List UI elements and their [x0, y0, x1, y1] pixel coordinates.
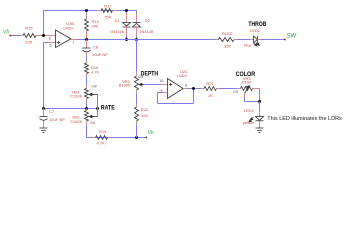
potentiometer VR3 — [241, 87, 253, 91]
svg-text:10K: 10K — [141, 113, 148, 118]
svg-text:C100K: C100K — [70, 119, 83, 124]
wire R20 bottom lead — [136, 121, 138, 125]
wiper VR1B — [90, 116, 98, 118]
wire output rail to C8 node — [77, 39, 87, 41]
svg-text:R21: R21 — [206, 81, 214, 86]
svg-text:Vb: Vb — [3, 30, 9, 36]
wire LED1 top lead — [259, 102, 261, 113]
ground (C7) — [40, 127, 48, 129]
node VR1 string / rail junction — [85, 107, 88, 110]
svg-text:R19: R19 — [99, 129, 107, 134]
wire output rail across diodes — [87, 39, 216, 41]
wire R19 lead left — [93, 137, 96, 139]
node RATE wiper bus junction — [96, 107, 99, 110]
svg-text:7: 7 — [72, 41, 74, 45]
svg-text:B100K: B100K — [119, 83, 131, 88]
svg-text:RLED: RLED — [222, 31, 233, 36]
wire R19 lead right — [108, 137, 111, 139]
resistor RLED — [219, 38, 235, 42]
svg-text:LED1: LED1 — [244, 108, 255, 113]
svg-text:24K: 24K — [92, 24, 99, 29]
wiper VR2 — [140, 84, 144, 86]
node Vb bottom endpoint — [145, 137, 147, 139]
potentiometer VR1A — [85, 89, 89, 99]
svg-text:4.7K: 4.7K — [91, 69, 100, 74]
svg-text:R20: R20 — [141, 107, 149, 112]
svg-text:10K: 10K — [25, 40, 32, 45]
wire U2B output pin 7 — [71, 39, 77, 41]
resistor R15 — [23, 34, 36, 38]
svg-text:LM324: LM324 — [177, 73, 187, 78]
resistor R16 — [85, 19, 89, 31]
wire VR1B bottom to bottom rail — [86, 121, 88, 125]
resistor R21 — [204, 87, 217, 91]
wire RLED to LED2 — [234, 39, 238, 41]
svg-text:4.7K: 4.7K — [97, 140, 106, 145]
node R16 top rail junction — [85, 9, 88, 12]
wire D1 bottom lead — [126, 27, 128, 36]
resistor R18 — [85, 63, 89, 74]
wire R18 to VR1A — [86, 74, 88, 78]
svg-text:RATE: RATE — [101, 105, 115, 112]
capacitor C7 — [40, 115, 48, 117]
svg-text:LM324: LM324 — [64, 25, 74, 30]
svg-text:THROB: THROB — [248, 21, 266, 28]
svg-text:6: 6 — [49, 37, 51, 41]
wire VR2 bottom to R20 — [136, 90, 138, 94]
LED LED2 — [254, 36, 258, 43]
resistor R20 — [135, 107, 139, 121]
wire VR1A bottom lead to RATE rail — [86, 99, 88, 103]
svg-text:C7: C7 — [49, 109, 55, 114]
plus sign U2B non-inverting input — [57, 42, 60, 44]
node R20 bottom junction — [135, 136, 138, 139]
svg-text:CW: CW — [92, 85, 97, 89]
wire R15 to U2B pin 6 — [36, 35, 56, 37]
wire bias column down from pin 5 to RATE rail — [43, 43, 45, 109]
wire R17 lead right — [113, 10, 117, 12]
wire D2 top lead — [136, 11, 138, 14]
svg-text:C100K: C100K — [70, 94, 83, 99]
wire R21 to VR3 — [217, 88, 221, 90]
wire D1 top lead — [126, 11, 128, 14]
wire top rail — [44, 10, 137, 12]
wire C7 bottom lead — [43, 121, 45, 128]
wire RATE rail — [44, 108, 98, 110]
node Vb endpoint — [9, 35, 11, 37]
wire D2 node down to VR2 — [136, 40, 138, 73]
wire R15 lead left — [21, 35, 24, 37]
svg-text:CW: CW — [90, 121, 95, 125]
svg-text:8: 8 — [185, 83, 187, 87]
wiper VR1A — [90, 94, 98, 96]
wire C8 top lead — [86, 40, 88, 48]
svg-text:SW: SW — [286, 34, 297, 40]
wire VR3 wiper return — [244, 94, 246, 97]
wire bottom rail — [87, 137, 146, 139]
node bias rail / C7 junction — [42, 107, 45, 110]
svg-text:D1: D1 — [115, 18, 121, 23]
plus sign U2C non-inverting input — [169, 84, 172, 86]
wire VR3 right end down — [253, 88, 260, 90]
LED LED1 — [256, 117, 264, 121]
svg-text:D2: D2 — [145, 18, 151, 23]
svg-text:Vb: Vb — [148, 130, 154, 136]
svg-text:1N4148: 1N4148 — [110, 29, 125, 34]
wire R16 bottom lead — [86, 31, 88, 40]
op-amp U2C — [168, 79, 184, 99]
svg-text:DEPTH: DEPTH — [141, 70, 158, 77]
LED2 light arrows — [254, 43, 256, 45]
svg-text:C10K: C10K — [242, 79, 252, 84]
wire VR1B top lead — [86, 109, 88, 111]
svg-text:This LED illuminates the LDRs: This LED illuminates the LDRs — [267, 116, 342, 122]
wire R16 top lead — [86, 11, 88, 14]
wire D2 bottom lead — [136, 27, 138, 36]
diode D1 — [123, 23, 131, 27]
node D1 output rail junction — [125, 38, 128, 41]
svg-text:15K: 15K — [224, 44, 231, 49]
wire VR2 wiper to U2C pin 10 — [144, 84, 161, 86]
node SW endpoint — [284, 39, 286, 41]
wire LED2 to SW — [258, 39, 262, 41]
wire C7 top lead — [43, 109, 45, 117]
ground (LED1) — [256, 127, 264, 129]
wire U2B pin 5 stub — [48, 42, 56, 44]
svg-text:10uF NP: 10uF NP — [92, 52, 108, 57]
svg-text:LED2: LED2 — [250, 28, 261, 33]
wire left vertical from top rail to U2B inverting input node — [43, 11, 45, 36]
node D2 output rail junction — [135, 38, 138, 41]
svg-text:1N4148: 1N4148 — [139, 29, 154, 34]
node U2C output / feedback junction — [192, 87, 195, 90]
potentiometer VR1B — [85, 111, 89, 122]
svg-text:R15: R15 — [25, 25, 33, 30]
svg-text:75K: 75K — [104, 15, 111, 20]
resistor R19 — [96, 136, 108, 140]
wire R17 lead left — [97, 10, 101, 12]
wire U2C output pin 8 — [183, 88, 187, 90]
capacitor C8 — [83, 47, 91, 49]
node VR3 / LED1 junction — [258, 100, 261, 103]
resistor R17 — [101, 9, 113, 13]
node D1 top rail junction — [125, 9, 128, 12]
svg-text:5: 5 — [50, 43, 52, 47]
svg-text:10: 10 — [160, 79, 164, 83]
wire RLED lead left — [216, 39, 219, 41]
wire C8 to R18 — [86, 52, 88, 56]
wire U2C pin 9 feedback loop — [163, 92, 168, 94]
wire R21 lead left — [201, 88, 204, 90]
svg-text:1K: 1K — [208, 93, 213, 98]
wire Vb input to R15 — [11, 35, 21, 37]
svg-text:10uF NP: 10uF NP — [49, 117, 65, 122]
op-amp U2B — [56, 30, 71, 48]
svg-text:R17: R17 — [104, 3, 112, 8]
svg-text:C8: C8 — [93, 45, 99, 50]
node C8 / R16 output junction — [85, 38, 88, 41]
svg-text:yellow: yellow — [243, 120, 254, 125]
diode D2 — [133, 22, 141, 24]
LED1 light arrows — [252, 117, 254, 119]
potentiometer VR2 — [135, 76, 139, 90]
wiper VR3 — [245, 87, 249, 93]
node U2B inverting input junction — [42, 34, 45, 37]
wire wiper bus vertical — [97, 95, 99, 117]
svg-text:blue: blue — [244, 43, 252, 48]
svg-text:CW: CW — [233, 90, 238, 94]
wire LED1 bottom lead — [259, 121, 261, 125]
